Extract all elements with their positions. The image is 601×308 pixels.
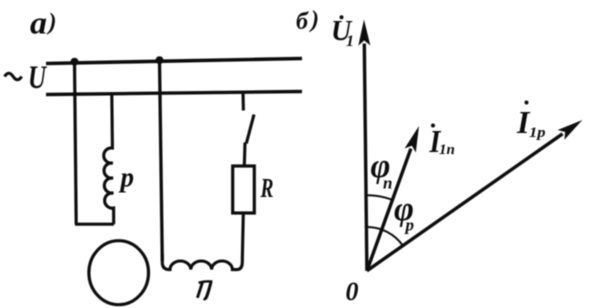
junction node B on top line xyxy=(156,56,164,64)
svg-text:б): б) xyxy=(296,7,319,35)
wire: bottom horizontal of inductor-p branch xyxy=(75,223,114,226)
svg-text:): ) xyxy=(47,10,57,36)
arc φр (between U1 axis and I1р) xyxy=(366,227,403,246)
phasor axis U1: arrowhead xyxy=(358,20,370,46)
wire: top supply line xyxy=(46,59,302,64)
svg-text:U: U xyxy=(28,60,48,96)
switch S1: stub from bottom line xyxy=(241,93,244,111)
svg-text:1р: 1р xyxy=(529,125,546,141)
junction node A on top line xyxy=(71,58,79,66)
svg-text:p: p xyxy=(119,163,134,194)
source label ~U xyxy=(5,73,22,80)
inductor П (horizontal coil, 3 top bumps) xyxy=(162,254,242,270)
wire: bottom supply line xyxy=(46,92,302,95)
inductor P (coil p, 4 left bumps) with leads xyxy=(104,94,114,225)
vector I1п: arrowhead xyxy=(405,126,419,153)
svg-text:1п: 1п xyxy=(439,142,455,158)
wire: switch to resistor R xyxy=(243,143,247,167)
vector I1р: shaft xyxy=(367,134,563,271)
vector I1р: arrowhead xyxy=(558,120,583,140)
value label П xyxy=(199,281,213,283)
svg-text:1: 1 xyxy=(346,33,354,50)
resistor R (rectangle body) xyxy=(233,166,255,213)
arc φп (between U1 axis and I1п) xyxy=(366,195,393,200)
wire: resistor R bottom lead to coil П xyxy=(241,213,245,256)
wire: left vertical from node A down (crosses bottom line) xyxy=(75,62,77,225)
vector I1п: shaft xyxy=(367,149,411,271)
svg-text:р: р xyxy=(404,216,415,235)
svg-text:a: a xyxy=(30,5,47,41)
wire: vertical from node B down to coil П xyxy=(160,61,163,262)
switch S1: blade xyxy=(246,115,254,144)
phasor axis U1: shaft xyxy=(364,44,367,271)
motor M (circle) xyxy=(89,241,149,305)
svg-text:п: п xyxy=(383,174,392,193)
svg-text:0: 0 xyxy=(346,277,359,306)
svg-text:R: R xyxy=(260,173,274,203)
